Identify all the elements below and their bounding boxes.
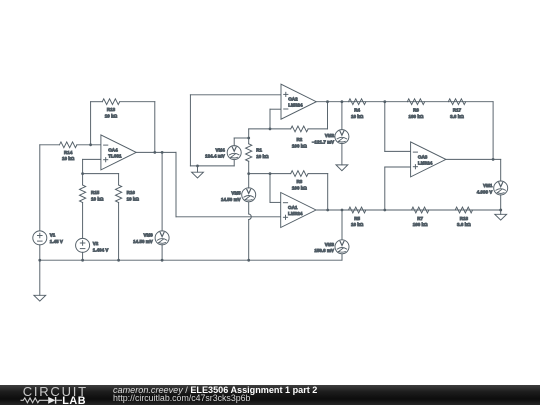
svg-text:OA2: OA2 bbox=[288, 97, 298, 102]
svg-text:100 kΩ: 100 kΩ bbox=[409, 114, 424, 119]
svg-text:LM324: LM324 bbox=[288, 103, 303, 108]
svg-text:R4: R4 bbox=[354, 108, 360, 113]
svg-text:3.6 kΩ: 3.6 kΩ bbox=[450, 114, 464, 119]
svg-text:R17: R17 bbox=[453, 108, 462, 113]
svg-text:1.464 V: 1.464 V bbox=[93, 247, 109, 252]
svg-text:R16: R16 bbox=[127, 190, 136, 195]
svg-text:TL081: TL081 bbox=[108, 153, 122, 158]
svg-text:R1: R1 bbox=[256, 148, 262, 153]
svg-text:V2: V2 bbox=[93, 241, 99, 246]
svg-text:OA4: OA4 bbox=[108, 147, 118, 152]
svg-text:10 kΩ: 10 kΩ bbox=[351, 114, 364, 119]
svg-text:1.45 V: 1.45 V bbox=[50, 239, 63, 244]
svg-text:10 kΩ: 10 kΩ bbox=[351, 222, 364, 227]
svg-text:3.6 kΩ: 3.6 kΩ bbox=[457, 222, 471, 227]
svg-text:R2: R2 bbox=[297, 137, 303, 142]
svg-text:VM3: VM3 bbox=[325, 242, 335, 247]
svg-text:4.999 V: 4.999 V bbox=[477, 190, 493, 195]
svg-text:14.50 mV: 14.50 mV bbox=[221, 197, 241, 202]
svg-text:R18: R18 bbox=[460, 216, 469, 221]
svg-text:10 kΩ: 10 kΩ bbox=[127, 196, 140, 201]
svg-text:150.6 mV: 150.6 mV bbox=[314, 248, 334, 253]
svg-text:10 kΩ: 10 kΩ bbox=[91, 196, 104, 201]
svg-text:OA3: OA3 bbox=[418, 154, 428, 159]
svg-text:R14: R14 bbox=[64, 150, 73, 155]
svg-text:R15: R15 bbox=[91, 190, 100, 195]
svg-text:V1: V1 bbox=[50, 233, 56, 238]
svg-text:14.50 mV: 14.50 mV bbox=[133, 239, 153, 244]
svg-text:LM324: LM324 bbox=[288, 211, 303, 216]
svg-text:OA1: OA1 bbox=[288, 205, 298, 210]
svg-text:−121.7 mV: −121.7 mV bbox=[312, 139, 334, 144]
svg-text:R3: R3 bbox=[297, 179, 303, 184]
svg-text:VM5: VM5 bbox=[231, 191, 241, 196]
svg-text:LAB: LAB bbox=[62, 395, 86, 405]
svg-text:R7: R7 bbox=[417, 216, 423, 221]
svg-text:100 kΩ: 100 kΩ bbox=[413, 222, 428, 227]
svg-text:124.4 mV: 124.4 mV bbox=[205, 153, 225, 158]
svg-text:VM6: VM6 bbox=[144, 233, 154, 238]
svg-text:100 kΩ: 100 kΩ bbox=[292, 186, 307, 191]
svg-text:10 kΩ: 10 kΩ bbox=[62, 156, 75, 161]
svg-text:100 kΩ: 100 kΩ bbox=[292, 143, 307, 148]
svg-text:10 kΩ: 10 kΩ bbox=[105, 113, 118, 118]
svg-text:VM4: VM4 bbox=[216, 147, 226, 152]
svg-text:VM1: VM1 bbox=[483, 183, 493, 188]
svg-text:R13: R13 bbox=[107, 107, 116, 112]
svg-text:R5: R5 bbox=[354, 216, 360, 221]
svg-text:10 kΩ: 10 kΩ bbox=[256, 154, 269, 159]
svg-text:VM2: VM2 bbox=[325, 133, 335, 138]
svg-text:LM324: LM324 bbox=[418, 160, 433, 165]
svg-text:R6: R6 bbox=[413, 108, 419, 113]
